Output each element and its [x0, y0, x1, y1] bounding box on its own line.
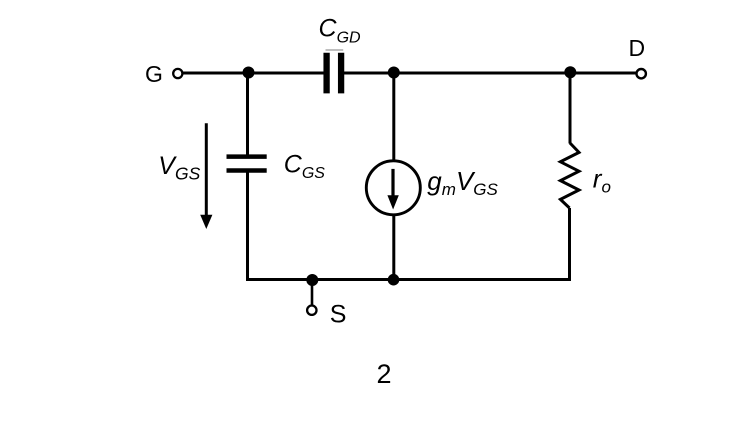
capacitor C_GD right plate [338, 53, 344, 94]
wire: C_GD right plate to D terminal (top rail right) [344, 72, 636, 75]
capacitor C_GS bottom plate [227, 168, 267, 173]
svg-text:CGD: CGD [319, 15, 362, 47]
wire: S terminal stub [311, 280, 314, 305]
svg-text:ro: ro [593, 164, 611, 197]
current source arrow shaft [391, 169, 394, 197]
node dot: drain-side node on top rail (middle) [388, 67, 400, 79]
capacitor C_GS top plate [227, 154, 267, 159]
svg-text:CGS: CGS [284, 150, 326, 182]
node dot: source node (S stub) on bottom rail [306, 274, 318, 286]
wire: right branch upper segment (node down to resistor) [569, 73, 572, 144]
wire: middle branch upper segment (top rail to current source) [392, 73, 395, 161]
current source arrowhead [387, 195, 398, 209]
capacitor C_GD left plate [323, 53, 329, 94]
arrow: V_GS polarity arrow shaft [205, 123, 208, 217]
wire: left branch lower segment (C_GS bottom plate down to bottom rail) [246, 171, 249, 282]
terminal G open circle [173, 69, 182, 78]
node dot: middle branch on bottom rail [388, 274, 400, 286]
resistor r_o zigzag [560, 143, 579, 208]
current source g_mV_GS circle [366, 161, 420, 215]
wire: bottom rail [246, 278, 571, 281]
wire: left branch upper segment (gate node down to C_GS top plate) [246, 73, 249, 157]
svg-text:2: 2 [377, 359, 392, 389]
svg-text:S: S [330, 301, 347, 329]
svg-text:VGS: VGS [158, 152, 200, 183]
wire: right branch lower segment (resistor to bottom rail) [568, 208, 571, 281]
svg-text:gmVGS: gmVGS [427, 166, 498, 199]
wire: G terminal to C_GD left plate (top rail left) [183, 72, 324, 75]
terminal S open circle [307, 306, 316, 315]
svg-text:G: G [145, 61, 163, 87]
wire: middle branch lower segment (current source to bottom rail) [392, 215, 395, 281]
svg-text:D: D [629, 35, 646, 61]
capacitor C_GD thin gray bar above plates [326, 49, 344, 51]
arrow: V_GS polarity arrowhead [200, 215, 212, 229]
terminal D open circle [637, 69, 646, 78]
node dot: gate node on top rail [243, 67, 255, 79]
node dot: node above r_o [564, 66, 576, 78]
